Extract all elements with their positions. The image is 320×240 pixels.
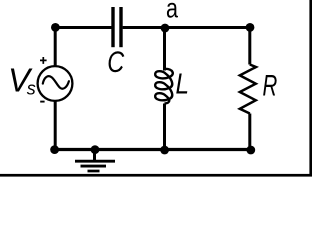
source Vs circle: [38, 66, 73, 101]
wire bottom: [55, 148, 252, 151]
wire top left-to-cap: [55, 26, 112, 29]
frame border bottom: [0, 174, 312, 177]
wire left lower: [54, 101, 57, 150]
node a dot: [161, 24, 170, 33]
wire top cap-to-right: [123, 26, 250, 29]
capacitor C right plate: [119, 7, 122, 47]
wire inductor top: [163, 28, 166, 71]
node dot bottom-right: [246, 146, 255, 155]
frame border right: [309, 0, 312, 176]
svg-text:L: L: [176, 68, 190, 100]
svg-text:C: C: [107, 46, 125, 79]
node dot bottom-inductor: [160, 146, 169, 155]
node dot bottom-left: [50, 145, 59, 154]
svg-text:R: R: [263, 70, 278, 103]
capacitor C left plate: [111, 7, 114, 47]
wire resistor top: [248, 28, 251, 65]
resistor R zigzag: [240, 65, 256, 114]
svg-text:a: a: [166, 0, 178, 24]
svg-text:s: s: [27, 79, 36, 99]
node dot top-right: [246, 23, 255, 32]
wire inductor bottom: [163, 104, 166, 150]
wire resistor bottom: [248, 114, 251, 150]
inductor L coil: [155, 69, 173, 104]
source minus sign: [40, 101, 44, 103]
ground bar 1: [75, 160, 115, 163]
ground bar 2: [81, 165, 107, 168]
source sine wave: [43, 76, 69, 89]
node dot ground junction: [91, 145, 100, 154]
ground stem: [93, 150, 96, 161]
source plus sign: [40, 57, 47, 64]
wire left upper: [54, 28, 57, 67]
node dot top-left: [51, 23, 60, 32]
ground bar 3: [88, 170, 100, 173]
